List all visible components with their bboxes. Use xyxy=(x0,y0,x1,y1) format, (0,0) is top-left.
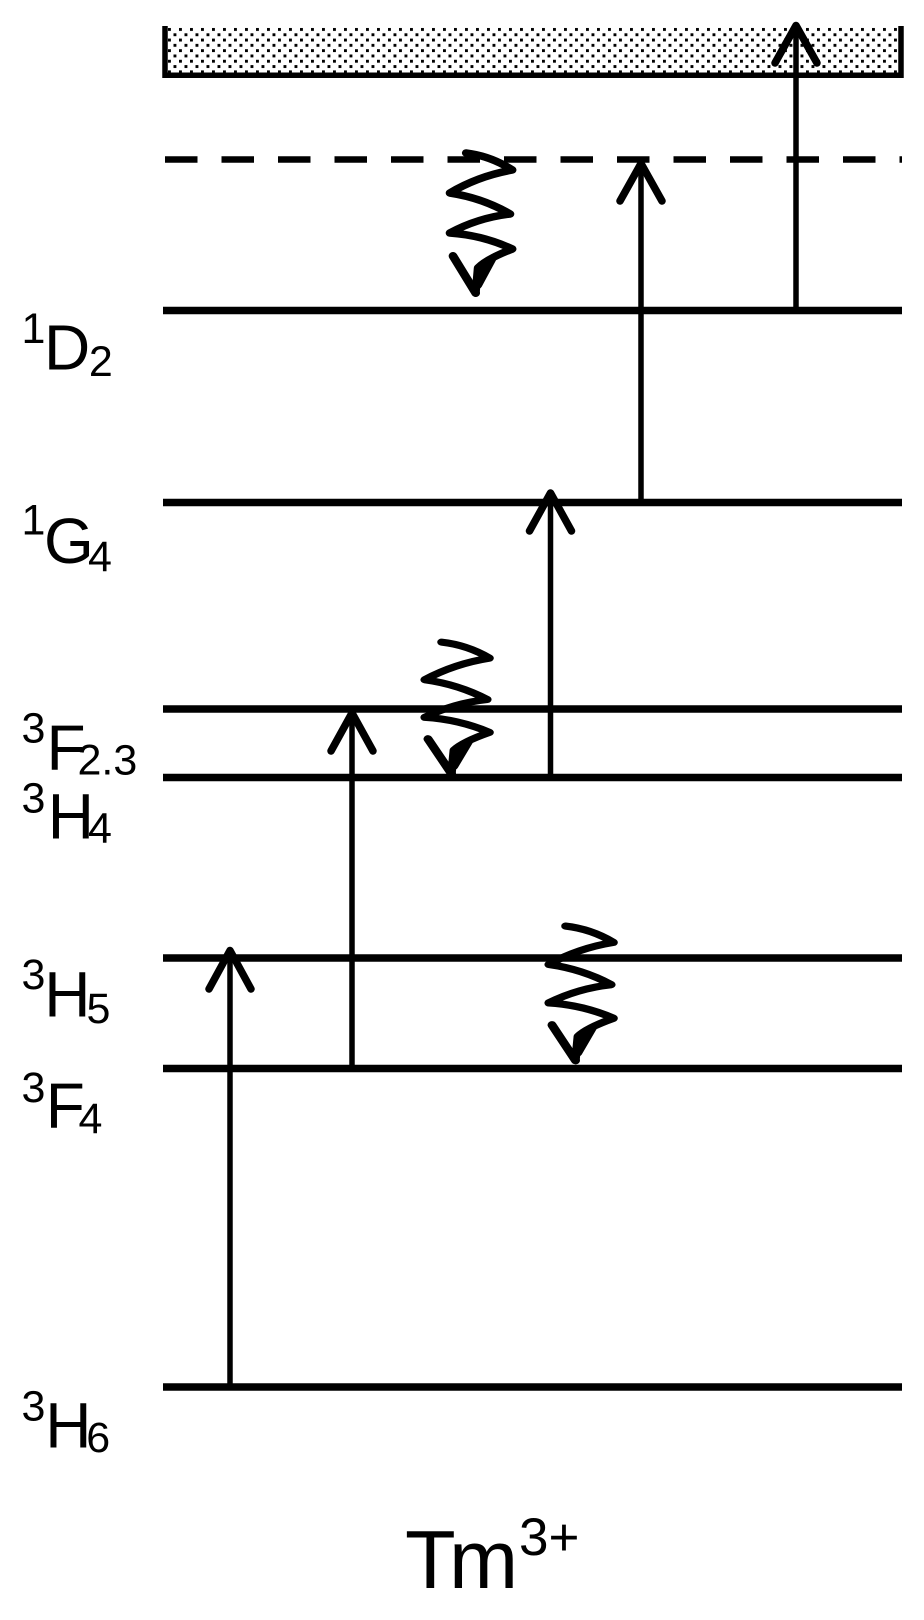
svg-text:m: m xyxy=(449,1513,518,1606)
wavy decay arrow 3H5 to 3F4 xyxy=(549,926,614,1060)
svg-text:3: 3 xyxy=(22,951,46,999)
pump arrow 1D2 to continuum band xyxy=(775,26,817,314)
level 1D2 line xyxy=(163,307,902,314)
level 1G4 line xyxy=(163,499,902,506)
svg-text:G: G xyxy=(44,505,94,577)
level 3F2.3 line xyxy=(163,705,902,712)
label 3F4 xyxy=(22,1064,103,1143)
svg-text:H: H xyxy=(44,959,90,1031)
svg-text:3: 3 xyxy=(22,775,46,823)
svg-text:6: 6 xyxy=(86,1414,110,1462)
continuum band border (left, bottom, right) xyxy=(165,26,901,75)
pump arrow 3H6 to 3H5 xyxy=(209,951,251,1389)
label 3F2.3 xyxy=(22,705,138,785)
continuum band dotted fill xyxy=(166,26,899,73)
svg-text:2: 2 xyxy=(89,338,113,386)
label 1G4 xyxy=(22,497,112,582)
svg-text:5: 5 xyxy=(87,985,111,1033)
svg-text:4: 4 xyxy=(88,805,112,853)
svg-text:3: 3 xyxy=(22,705,46,753)
pump arrow 3F4 to 3F2.3 xyxy=(331,713,373,1070)
label 3H6 xyxy=(22,1383,111,1463)
wavy decay arrow 3F2.3 to 3H4 xyxy=(425,642,490,774)
level 3H5 line xyxy=(163,954,902,961)
wavy decay arrow dashed level to 1D2 xyxy=(450,153,513,293)
svg-text:1: 1 xyxy=(22,497,46,545)
pump arrow 3H4 to 1G4 xyxy=(530,493,572,780)
svg-text:3: 3 xyxy=(22,1064,46,1112)
svg-text:4: 4 xyxy=(79,1095,103,1143)
pump arrow 1G4 to dashed level xyxy=(620,164,662,506)
level 3F4 line xyxy=(163,1065,902,1072)
svg-text:4: 4 xyxy=(88,533,112,581)
svg-text:3: 3 xyxy=(22,1383,46,1431)
svg-text:D: D xyxy=(44,312,90,384)
svg-text:3+: 3+ xyxy=(519,1508,579,1567)
label 3H4 xyxy=(22,775,112,853)
level 3H6 line xyxy=(163,1383,902,1390)
dashed virtual level line xyxy=(165,156,902,163)
ion label Tm3+ xyxy=(405,1508,579,1606)
label 1D2 xyxy=(22,305,113,386)
svg-text:H: H xyxy=(45,1390,91,1462)
svg-text:1: 1 xyxy=(22,305,46,353)
svg-text:2.3: 2.3 xyxy=(78,737,138,785)
label 3H5 xyxy=(22,951,111,1033)
level 3H4 line xyxy=(163,774,902,781)
